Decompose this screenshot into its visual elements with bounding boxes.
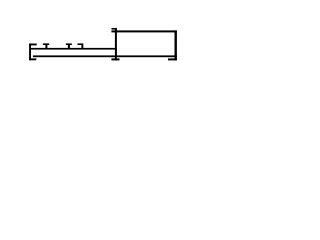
box right foot hook [168,58,177,60]
rail top line [31,48,117,50]
box right edge [175,30,177,60]
clip T1 crossbar [43,43,49,45]
corner clip stem [81,45,83,49]
left bracket bottom arm [29,58,36,60]
rail bottom / box bottom line [33,55,177,57]
clip T1 stem [45,45,47,49]
post foot [111,58,119,60]
post top flag [112,28,115,30]
corner clip bar [78,43,84,45]
clip T2 stem [68,45,70,49]
clip T2 crossbar [66,43,72,45]
box top edge [111,30,176,32]
left bracket top arm [29,44,37,46]
technical line drawing: rail with clips and box [0,0,216,103]
left end bracket vertical [29,44,31,61]
tall post vertical [115,28,117,61]
